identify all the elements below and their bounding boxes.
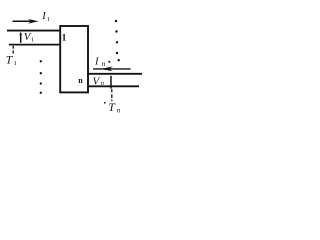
svg-text:n: n bbox=[78, 76, 83, 85]
current arrow I1 (pointing right, into port 1) bbox=[13, 19, 39, 24]
svg-text:1: 1 bbox=[14, 60, 17, 67]
stray dot left of Tn bbox=[104, 102, 106, 104]
svg-text:I: I bbox=[41, 11, 46, 22]
wire: port 1 upper lead bbox=[7, 30, 60, 32]
wire: port 1 lower lead bbox=[9, 44, 60, 46]
svg-text:1: 1 bbox=[62, 34, 67, 44]
wire: port n lower lead bbox=[88, 85, 139, 87]
dashed temperature lead T1 bbox=[12, 46, 14, 54]
voltage arrow Vn (tick) bbox=[110, 76, 112, 89]
svg-text:n: n bbox=[117, 106, 121, 115]
left vertical ellipsis dots bbox=[40, 60, 42, 94]
svg-text:1: 1 bbox=[47, 16, 50, 23]
current arrow In (pointing left, into port n) bbox=[93, 67, 131, 72]
stray dot right of In bbox=[108, 61, 110, 63]
right vertical ellipsis dots bbox=[115, 20, 120, 62]
dashed temperature lead Tn bbox=[111, 89, 113, 101]
n-port network box bbox=[60, 26, 88, 92]
svg-text:n: n bbox=[101, 80, 104, 87]
svg-text:I: I bbox=[94, 57, 99, 68]
voltage arrow V1 (tick between leads) bbox=[19, 32, 22, 43]
svg-text:1: 1 bbox=[31, 37, 34, 44]
svg-text:n: n bbox=[102, 59, 106, 68]
wire: port n upper lead bbox=[88, 73, 142, 75]
